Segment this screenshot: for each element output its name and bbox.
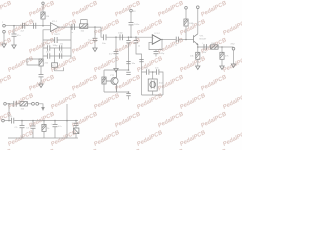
wire input to opamp <box>5 25 50 27</box>
resistor R8 in cell <box>102 77 106 84</box>
wire riser <box>66 104 68 138</box>
node D junction <box>115 36 117 38</box>
trimmer RV1 <box>27 59 49 66</box>
capacitor C30 branch polarized <box>72 120 79 128</box>
svg-text:100n: 100n <box>134 24 140 26</box>
transistor Q2 <box>106 70 118 92</box>
svg-text:100n: 100n <box>118 33 124 35</box>
wire main rail <box>14 120 78 122</box>
resistor R6 series <box>211 43 219 49</box>
capacitor C2 series <box>21 23 25 33</box>
ground below C11 <box>93 48 97 52</box>
op-amp IC1B <box>152 33 161 45</box>
svg-text:100p: 100p <box>159 53 165 55</box>
capacitor C8 row3 right <box>59 52 71 59</box>
mic block left rail <box>136 43 142 95</box>
watermark PedalPCB tiled <box>0 0 314 166</box>
ground below C13 <box>114 69 118 73</box>
capacitor C31 mid rail lower <box>126 72 130 74</box>
svg-text:IC1.1: IC1.1 <box>52 21 58 23</box>
capacitor C21 mid rail <box>126 62 136 66</box>
connector J2 output <box>231 43 236 64</box>
capacitor C14 series <box>118 33 124 41</box>
power V+ mid <box>130 9 137 22</box>
wire down jog <box>95 27 103 37</box>
wire stage2 input <box>106 36 152 38</box>
capacitor C25 series <box>155 67 159 75</box>
capacitor C17 supply <box>129 23 140 38</box>
capacitor C22 below cell <box>126 92 130 100</box>
svg-text:BC547: BC547 <box>200 39 207 41</box>
capacitor C24 series <box>145 67 149 75</box>
capacitor C7 row3 left <box>43 52 59 59</box>
connector J1 input jack <box>2 22 5 33</box>
transistor Q2 cell box <box>104 69 129 93</box>
node A junction <box>13 25 15 27</box>
power V+ right B <box>197 6 200 34</box>
node B junction <box>42 25 44 27</box>
capacitor C19 series <box>175 37 194 47</box>
wire opamp2 output <box>161 39 176 41</box>
op-amp IC1A <box>50 21 60 36</box>
node H junction <box>197 46 199 48</box>
wire feedback right rail <box>70 26 72 58</box>
ground below J2 <box>231 64 235 68</box>
wire bottom rail <box>8 137 78 139</box>
connector J4 lower <box>2 119 11 122</box>
wire opamp1 output <box>59 26 95 28</box>
connector J3 power input <box>4 103 14 106</box>
capacitor C16 stub <box>134 37 141 47</box>
node F junction <box>135 36 137 38</box>
ground below R5 <box>196 66 200 70</box>
capacitor C13 long shunt <box>109 37 119 68</box>
resistor R3 <box>80 24 88 33</box>
resistor R7 load <box>220 47 230 66</box>
switch SA1 <box>32 102 43 107</box>
wire tie rows <box>8 103 10 121</box>
wire feedback left rail <box>41 30 50 59</box>
capacitor C6 row2 right <box>59 44 71 51</box>
transistor Q1 <box>194 34 207 46</box>
capacitor C27 on rail <box>10 116 14 124</box>
svg-text:100p: 100p <box>53 45 59 47</box>
crystal X1 <box>148 71 164 95</box>
svg-text:TL072: TL072 <box>54 34 61 36</box>
wire drop with capacitor C32 <box>15 120 25 138</box>
ground below J1 <box>2 33 6 48</box>
capacitor C4 feedback row1 <box>43 37 71 47</box>
capacitor C12 series polarized <box>101 33 107 45</box>
ground below C9 <box>39 84 43 88</box>
wire mid node rows <box>54 48 56 56</box>
resistor R5 emitter <box>190 47 200 66</box>
node G junction <box>185 39 187 41</box>
svg-text:IC1.2: IC1.2 <box>155 33 161 35</box>
capacitor C20 series polarized <box>202 42 207 53</box>
ground below R7 <box>220 66 224 70</box>
resistor R1 <box>41 12 49 26</box>
capacitor C9 below trimmer <box>39 66 44 84</box>
capacitor C23 on rail <box>139 60 143 62</box>
capacitor C29 branch polarized <box>51 120 63 138</box>
resistor R2 small box <box>52 56 64 71</box>
wire feedback opamp2 <box>149 40 162 50</box>
wire mic row top <box>142 72 164 95</box>
capacitor C18 feedback <box>154 50 165 57</box>
capacitor C15 stub <box>125 37 131 70</box>
resistor R4 bias <box>184 19 195 40</box>
ground below C1 <box>12 45 16 49</box>
trimmer RV2 loop <box>81 20 88 24</box>
capacitor C3 series <box>32 21 36 29</box>
capacitor C26 series <box>14 101 20 107</box>
capacitor C1 shunt <box>12 26 22 45</box>
svg-text:1M: 1M <box>46 16 49 18</box>
power V+ right A <box>185 7 188 20</box>
node C junction <box>94 26 96 28</box>
box K1 <box>74 128 79 138</box>
node E junction <box>128 36 130 38</box>
capacitor C5 row2 left <box>43 44 59 51</box>
resistor R10 branch <box>42 120 50 138</box>
power V+ top left <box>42 2 44 12</box>
node I junction <box>221 46 223 48</box>
arrow to supply <box>41 107 45 111</box>
capacitor C10 series output <box>71 24 75 34</box>
resistor R9 <box>20 102 32 111</box>
capacitor C11 shunt <box>88 27 98 48</box>
capacitor C28 branch <box>26 120 36 138</box>
wire emitter row <box>198 45 234 47</box>
